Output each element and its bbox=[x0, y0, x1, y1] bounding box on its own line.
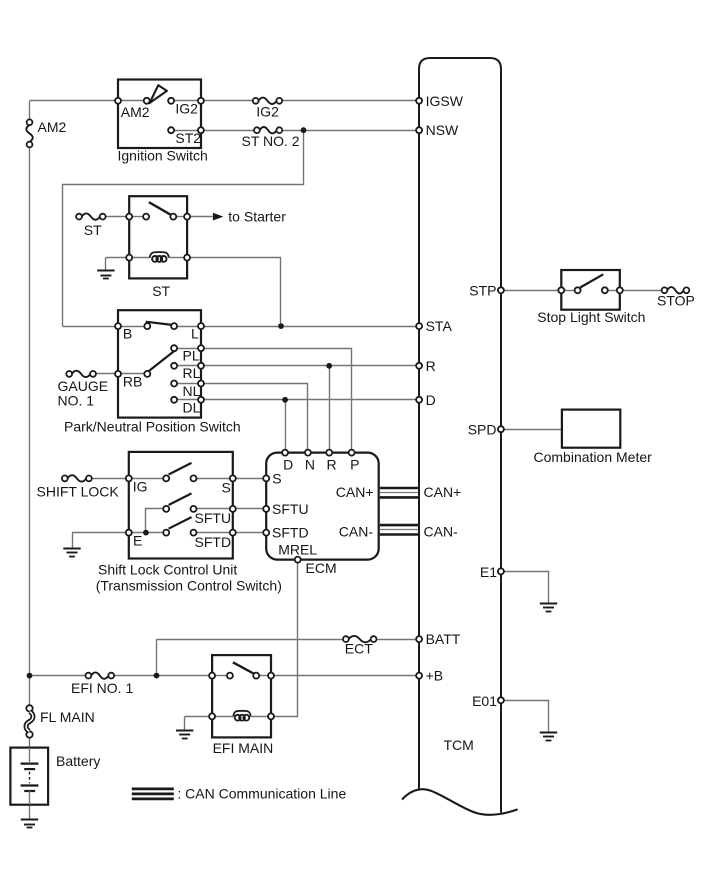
blade shift lock SFTU bbox=[169, 493, 192, 505]
terminal S (right edge) bbox=[230, 475, 236, 481]
label GAUGE bbox=[58, 378, 109, 394]
wire NL to ECM pin N bbox=[201, 384, 308, 453]
wire +B: battery rail to EFI NO.1 fuse bbox=[30, 675, 86, 677]
svg-text:EFI NO. 1: EFI NO. 1 bbox=[71, 680, 133, 696]
label SFTD ECM bbox=[272, 524, 309, 540]
pin D (ECM top) bbox=[282, 450, 288, 456]
svg-text:Shift Lock Control Unit: Shift Lock Control Unit bbox=[98, 561, 237, 577]
label BATT bbox=[426, 631, 461, 647]
contact ST relay switch b bbox=[170, 214, 176, 220]
label ST fuse bbox=[84, 222, 102, 238]
wire EFI MAIN switch leads bbox=[215, 675, 268, 677]
wire MREL from ECM to EFI MAIN coil bbox=[271, 560, 298, 717]
label CAN- TCM side bbox=[424, 523, 459, 539]
wire battery positive lead bbox=[29, 763, 31, 765]
label SFTD pin bbox=[195, 534, 232, 550]
bus CAN- (ECM to TCM) bbox=[380, 525, 418, 534]
terminal STA (TCM) bbox=[416, 323, 422, 329]
svg-text:CAN+: CAN+ bbox=[424, 484, 462, 500]
pin S (ECM left) bbox=[263, 475, 269, 481]
svg-text:CAN-: CAN- bbox=[339, 523, 374, 539]
wire SFTU pivot feed bbox=[146, 509, 164, 533]
terminal EFI MAIN coil left bbox=[209, 713, 215, 719]
blade shift lock IG-S bbox=[169, 463, 192, 475]
wire PL to ECM pin P bbox=[201, 349, 352, 453]
combination meter box bbox=[562, 410, 620, 448]
svg-text:NO. 1: NO. 1 bbox=[58, 392, 95, 408]
switch Park/Neutral Position box bbox=[118, 310, 201, 417]
pin SFTU (ECM left) bbox=[263, 506, 269, 512]
wire SFTD contact to terminal bbox=[197, 532, 230, 534]
wire battery negative lead to ground bbox=[29, 791, 31, 820]
label CAN+ TCM side bbox=[424, 484, 462, 500]
label E1 bbox=[480, 564, 497, 580]
label B bbox=[123, 325, 132, 341]
terminal B (left edge) bbox=[115, 323, 121, 329]
svg-text:Battery: Battery bbox=[56, 753, 100, 769]
terminal RL (right edge) bbox=[198, 363, 204, 369]
svg-text:+B: +B bbox=[426, 668, 444, 684]
wire E01 to ground bbox=[501, 701, 549, 733]
wire P/N B to pivot bbox=[121, 326, 144, 328]
svg-text:E: E bbox=[133, 533, 142, 549]
svg-text:NSW: NSW bbox=[426, 122, 459, 138]
svg-text:D: D bbox=[426, 392, 436, 408]
battery cell dashed link bbox=[29, 772, 31, 783]
blade stop light switch bbox=[580, 274, 603, 287]
arrow to Starter bbox=[213, 213, 224, 221]
wire ST relay contact to right terminal bbox=[176, 216, 184, 218]
legend CAN bus symbol bbox=[132, 789, 174, 799]
node BATT/+B junction bbox=[154, 673, 160, 679]
inductor EFI MAIN coil bbox=[233, 711, 250, 721]
contact SFTU pivot bbox=[163, 506, 169, 512]
wire FL MAIN to battery bbox=[29, 737, 31, 764]
contact B pivot bbox=[144, 323, 150, 329]
fuse EFI NO. 1 bbox=[86, 672, 115, 678]
terminal E (left edge) bbox=[126, 530, 132, 536]
terminal RB (left edge) bbox=[115, 371, 121, 377]
svg-text:SHIFT LOCK: SHIFT LOCK bbox=[37, 483, 120, 499]
wire left rail upper (AM2 bus) bbox=[29, 101, 31, 676]
bus CAN+ (ECM to TCM) bbox=[380, 488, 418, 497]
wire SPD: TCM to combination meter bbox=[501, 429, 562, 431]
terminal IGSW (TCM) bbox=[416, 98, 422, 104]
relay ST box bbox=[129, 196, 187, 278]
terminal IG2 (right edge) bbox=[198, 98, 204, 104]
terminal NSW (TCM) bbox=[416, 127, 422, 133]
label CAN Communication Line bbox=[177, 785, 346, 801]
contact L bbox=[171, 323, 177, 329]
wire +B: EFI MAIN relay to TCM bbox=[271, 675, 419, 677]
terminal BATT (TCM) bbox=[416, 636, 422, 642]
ground ST relay bbox=[97, 271, 114, 279]
wire control unit SFTU to ECM SFTU bbox=[233, 508, 266, 510]
svg-text:AM2: AM2 bbox=[38, 119, 67, 135]
blade EFI MAIN switch bbox=[233, 662, 255, 674]
terminal ST2 (right edge) bbox=[198, 127, 204, 133]
svg-text:EFI MAIN: EFI MAIN bbox=[213, 740, 274, 756]
label CAN+ ECM side bbox=[336, 484, 374, 500]
wire AM2 feed top bbox=[30, 100, 119, 102]
pin P (ECM top) bbox=[349, 450, 355, 456]
contact IG pivot bbox=[163, 475, 169, 481]
svg-text:: CAN Communication Line: : CAN Communication Line bbox=[177, 785, 346, 801]
contact stop light pivot bbox=[575, 287, 581, 293]
label L bbox=[191, 325, 199, 341]
blade RB-PL bbox=[149, 351, 175, 371]
wire node R to ECM pin R bbox=[329, 366, 331, 453]
wire NSW: fuse to TCM bbox=[282, 130, 419, 132]
svg-text:STOP: STOP bbox=[657, 293, 695, 309]
label RL bbox=[183, 365, 201, 381]
node STA junction (ST relay coil) bbox=[278, 323, 284, 329]
label STA bbox=[426, 318, 453, 334]
terminal SFTU (right edge) bbox=[230, 506, 236, 512]
label P pin bbox=[350, 457, 359, 473]
label ECM bbox=[306, 560, 337, 576]
fuse SHIFT LOCK bbox=[62, 475, 92, 481]
wire STP: TCM to stop light switch bbox=[501, 290, 561, 292]
ground E1 bbox=[540, 604, 557, 612]
contact RL bbox=[171, 363, 177, 369]
terminal L (right edge) bbox=[198, 323, 204, 329]
svg-text:N: N bbox=[305, 457, 315, 473]
battery plate short 2 bbox=[24, 790, 35, 792]
wire DL contact to terminal bbox=[177, 399, 198, 401]
contact EFI MAIN b bbox=[253, 673, 259, 679]
svg-text:SFTU: SFTU bbox=[272, 501, 309, 517]
svg-text:(Transmission Control Switch): (Transmission Control Switch) bbox=[96, 577, 282, 593]
wire STA: P/N switch L to TCM bbox=[201, 326, 419, 328]
svg-text:SFTD: SFTD bbox=[195, 534, 232, 550]
pin MREL (ECM bottom) bbox=[295, 557, 301, 563]
ignition switch blade wedge bbox=[150, 85, 167, 103]
ground shift lock control unit E bbox=[63, 549, 80, 557]
wire ST relay coil to STA net bbox=[188, 258, 281, 327]
contact SFTD bbox=[191, 530, 197, 536]
label to Starter bbox=[228, 209, 286, 225]
battery plate long 2 bbox=[21, 784, 39, 786]
wire DL / D net to TCM bbox=[201, 399, 419, 401]
label N pin bbox=[305, 457, 315, 473]
wire RL contact to terminal bbox=[177, 365, 198, 367]
svg-text:CAN+: CAN+ bbox=[336, 484, 374, 500]
svg-text:Ignition Switch: Ignition Switch bbox=[118, 147, 208, 163]
wire control unit S to ECM S bbox=[233, 478, 266, 480]
contact ST relay switch a bbox=[143, 214, 149, 220]
label NL bbox=[183, 383, 201, 399]
label SFTU pin bbox=[195, 510, 232, 526]
contact ST2 bbox=[168, 127, 174, 133]
terminal ST relay switch right bbox=[184, 214, 190, 220]
pin R (ECM top) bbox=[326, 450, 332, 456]
wire control unit SFTD to ECM SFTD bbox=[233, 532, 266, 534]
contact PL bbox=[171, 345, 177, 351]
contact SFTU bbox=[191, 506, 197, 512]
fusible link FL MAIN bbox=[26, 705, 33, 738]
svg-text:CAN-: CAN- bbox=[424, 523, 459, 539]
svg-text:ECT: ECT bbox=[345, 640, 373, 656]
label NO. 1 bbox=[58, 392, 95, 408]
fuse AM2 (vertical, left rail) bbox=[26, 119, 32, 147]
node +B left rail junction bbox=[27, 673, 33, 679]
label STOP fuse bbox=[657, 293, 695, 309]
svg-text:L: L bbox=[191, 325, 199, 341]
terminal D (TCM) bbox=[416, 397, 422, 403]
wire PL contact to terminal bbox=[177, 348, 198, 350]
svg-text:ST NO. 2: ST NO. 2 bbox=[242, 133, 300, 149]
svg-text:RB: RB bbox=[123, 373, 142, 389]
fuse ECT bbox=[343, 636, 377, 642]
wire EFI MAIN coil to ground bbox=[185, 716, 213, 730]
label E01 bbox=[472, 693, 497, 709]
label ST2 pin bbox=[175, 130, 201, 146]
wire ST relay coil leads bbox=[132, 257, 184, 259]
svg-text:MREL: MREL bbox=[278, 541, 317, 557]
contact NL bbox=[171, 381, 177, 387]
battery plate long 1 bbox=[21, 762, 39, 764]
wire E1 to ground bbox=[501, 572, 549, 604]
label Ignition Switch bbox=[118, 147, 208, 163]
wire +B: fuse to EFI MAIN relay bbox=[114, 675, 212, 677]
ground EFI MAIN bbox=[176, 731, 193, 739]
label +B bbox=[426, 668, 444, 684]
svg-text:Stop Light Switch: Stop Light Switch bbox=[537, 309, 645, 325]
switch Stop Light box bbox=[561, 270, 620, 310]
label DL bbox=[183, 399, 201, 415]
svg-text:IG2: IG2 bbox=[175, 100, 198, 116]
svg-text:STP: STP bbox=[469, 283, 496, 299]
label TCM bbox=[444, 737, 474, 753]
fuse ST bbox=[76, 213, 106, 219]
label IG bbox=[133, 478, 148, 494]
terminal DL (right edge) bbox=[198, 397, 204, 403]
wire ST relay to starter arrow bbox=[187, 216, 213, 218]
shift lock control unit box bbox=[129, 452, 233, 559]
terminal IG (left edge) bbox=[126, 475, 132, 481]
contact IG2 bbox=[168, 98, 174, 104]
wire left rail to FL MAIN bbox=[29, 676, 31, 706]
battery box bbox=[10, 748, 48, 805]
wire BATT: ECT fuse line bbox=[157, 639, 420, 641]
wire ST fuse to ST relay bbox=[105, 216, 129, 218]
wire SHIFT LOCK fuse to control unit IG bbox=[92, 478, 129, 480]
svg-text:D: D bbox=[283, 457, 293, 473]
label ST relay bbox=[152, 283, 170, 299]
label EFI MAIN bbox=[213, 740, 274, 756]
svg-text:ECM: ECM bbox=[306, 560, 337, 576]
wire RL / R net to TCM bbox=[201, 365, 419, 367]
label Stop Light Switch bbox=[537, 309, 645, 325]
terminal EFI MAIN switch left bbox=[209, 673, 215, 679]
blade P/N B-L bbox=[146, 322, 172, 325]
node ST2-NSW junction bbox=[301, 127, 307, 133]
pin N (ECM top) bbox=[305, 450, 311, 456]
label S pin bbox=[222, 479, 231, 495]
label D pin bbox=[283, 457, 293, 473]
label PL bbox=[183, 348, 200, 364]
svg-text:R: R bbox=[327, 457, 337, 473]
terminal ST relay coil left bbox=[126, 255, 132, 261]
wire ignition switch AM2 to pivot bbox=[121, 100, 144, 102]
terminal +B (TCM) bbox=[416, 673, 422, 679]
label SFTU ECM bbox=[272, 501, 309, 517]
TCM box outline bbox=[402, 58, 518, 815]
terminal ST relay switch left bbox=[126, 214, 132, 220]
wire IGSW: fuse to TCM bbox=[282, 100, 419, 102]
contact S bbox=[191, 475, 197, 481]
terminal R (TCM) bbox=[416, 363, 422, 369]
label SHIFT LOCK fuse bbox=[37, 483, 120, 499]
label AM2 pin bbox=[121, 104, 150, 120]
terminal SFTD (right edge) bbox=[230, 530, 236, 536]
label SPD bbox=[468, 421, 497, 437]
wire node D to ECM pin D bbox=[285, 400, 287, 453]
label RB bbox=[123, 373, 142, 389]
label D bbox=[426, 392, 436, 408]
label Park/Neutral Position Switch bbox=[64, 418, 241, 434]
svg-text:B: B bbox=[123, 325, 132, 341]
wire control unit E to ground bbox=[72, 533, 129, 549]
wire SFTU contact to terminal bbox=[197, 508, 230, 510]
label ECT fuse bbox=[345, 640, 373, 656]
svg-text:IG: IG bbox=[133, 478, 148, 494]
svg-text:AM2: AM2 bbox=[121, 104, 150, 120]
contact EFI MAIN a bbox=[227, 673, 233, 679]
label Shift Lock Control Unit bbox=[98, 561, 237, 577]
ignition switch box bbox=[118, 80, 201, 149]
svg-text:RL: RL bbox=[183, 365, 201, 381]
wire to P/N switch terminal B bbox=[63, 326, 118, 328]
svg-text:Combination Meter: Combination Meter bbox=[534, 449, 653, 465]
ground E01 bbox=[540, 733, 557, 741]
wire stop light switch leads bbox=[564, 290, 617, 292]
svg-text:FL MAIN: FL MAIN bbox=[40, 709, 95, 725]
terminal STP (TCM) bbox=[498, 287, 504, 293]
terminal NL (right edge) bbox=[198, 381, 204, 387]
svg-text:ST: ST bbox=[152, 283, 170, 299]
svg-text:Park/Neutral Position Switch: Park/Neutral Position Switch bbox=[64, 418, 241, 434]
label IGSW bbox=[426, 93, 464, 109]
terminal ST relay coil right bbox=[184, 255, 190, 261]
wire E terminal to pivot bbox=[132, 532, 163, 534]
label AM2 fuse bbox=[38, 119, 67, 135]
terminal SPD (TCM) bbox=[498, 426, 504, 432]
svg-text:SPD: SPD bbox=[468, 421, 497, 437]
wire ST relay left terminal to contact bbox=[132, 216, 143, 218]
svg-text:IG2: IG2 bbox=[256, 104, 279, 120]
label ST NO. 2 fuse bbox=[242, 133, 300, 149]
contact SFTD pivot bbox=[163, 530, 169, 536]
label S ECM bbox=[272, 470, 281, 486]
battery plate short 1 bbox=[24, 768, 35, 770]
fuse STOP bbox=[662, 287, 690, 293]
terminal PL (right edge) bbox=[198, 345, 204, 351]
svg-text:DL: DL bbox=[183, 399, 201, 415]
node D junction (DL to ECM pin D) bbox=[282, 397, 288, 403]
node R junction (RL to ECM pin R) bbox=[326, 363, 332, 369]
contact RB pivot bbox=[144, 371, 150, 377]
pivot contact AM2 bbox=[144, 98, 150, 104]
relay EFI MAIN box bbox=[212, 655, 271, 737]
terminal EFI MAIN coil right bbox=[268, 713, 274, 719]
wire P/N L contact to terminal bbox=[177, 326, 198, 328]
svg-text:E1: E1 bbox=[480, 564, 497, 580]
label (Transmission Control Switch) bbox=[96, 577, 282, 593]
svg-text:NL: NL bbox=[183, 383, 201, 399]
wire ignition switch ST2 contact to terminal bbox=[174, 130, 198, 132]
label E pin bbox=[133, 533, 142, 549]
label R bbox=[426, 358, 436, 374]
terminal AM2 (ignition switch left edge) bbox=[115, 98, 121, 104]
blade shift lock SFTD bbox=[169, 517, 192, 529]
label Combination Meter bbox=[534, 449, 653, 465]
svg-text:P: P bbox=[350, 457, 359, 473]
pin SFTD (ECM left) bbox=[263, 530, 269, 536]
wire IG terminal to pivot bbox=[132, 478, 163, 480]
inductor ST relay coil bbox=[150, 252, 169, 262]
label FL MAIN bbox=[40, 709, 95, 725]
label NSW bbox=[426, 122, 459, 138]
svg-text:STA: STA bbox=[426, 318, 453, 334]
svg-text:PL: PL bbox=[183, 348, 200, 364]
wire NSW: ignition switch ST2 to fuse bbox=[201, 130, 254, 132]
wire node ST2 junction down-left to P/N switch B bbox=[63, 131, 304, 327]
terminal EFI MAIN switch right bbox=[268, 673, 274, 679]
ECM box bbox=[266, 453, 379, 560]
wire S contact to terminal bbox=[197, 478, 230, 480]
svg-text:E01: E01 bbox=[472, 693, 497, 709]
label IG2 fuse bbox=[256, 104, 279, 120]
relay ST switch blade bbox=[149, 202, 171, 215]
terminal E01 (TCM) bbox=[498, 697, 504, 703]
wire IGSW: ignition switch IG2 to fuse bbox=[201, 100, 253, 102]
wire GAUGE fuse to P/N switch RB bbox=[96, 373, 118, 375]
svg-text:R: R bbox=[426, 358, 436, 374]
fuse ST NO. 2 bbox=[254, 127, 282, 133]
svg-text:to Starter: to Starter bbox=[228, 209, 286, 225]
terminal E1 (TCM) bbox=[498, 568, 504, 574]
label CAN- ECM side bbox=[339, 523, 374, 539]
svg-text:SFTD: SFTD bbox=[272, 524, 309, 540]
node E junction bbox=[143, 530, 149, 536]
label STP bbox=[469, 283, 496, 299]
fuse GAUGE NO. 1 bbox=[66, 371, 96, 377]
wire battery internal leads bbox=[29, 748, 31, 805]
svg-text:S: S bbox=[222, 479, 231, 495]
svg-text:IGSW: IGSW bbox=[426, 93, 464, 109]
svg-text:ST: ST bbox=[84, 222, 102, 238]
wire NL contact to terminal bbox=[177, 383, 198, 385]
wire EFI MAIN coil leads bbox=[215, 716, 268, 718]
label EFI NO. 1 fuse bbox=[71, 680, 133, 696]
contact stop light b bbox=[602, 287, 608, 293]
terminal stop light right bbox=[617, 287, 623, 293]
svg-text:SFTU: SFTU bbox=[195, 510, 232, 526]
wire ignition switch IG2 contact to terminal bbox=[174, 100, 198, 102]
ground battery bbox=[21, 820, 38, 828]
svg-text:BATT: BATT bbox=[426, 631, 461, 647]
wire ST relay coil to ground bbox=[106, 258, 130, 272]
terminal stop light left bbox=[558, 287, 564, 293]
svg-text:S: S bbox=[272, 470, 281, 486]
svg-text:ST2: ST2 bbox=[175, 130, 201, 146]
svg-text:TCM: TCM bbox=[444, 737, 474, 753]
label R pin bbox=[327, 457, 337, 473]
label MREL pin bbox=[278, 541, 317, 557]
label Battery bbox=[56, 753, 100, 769]
